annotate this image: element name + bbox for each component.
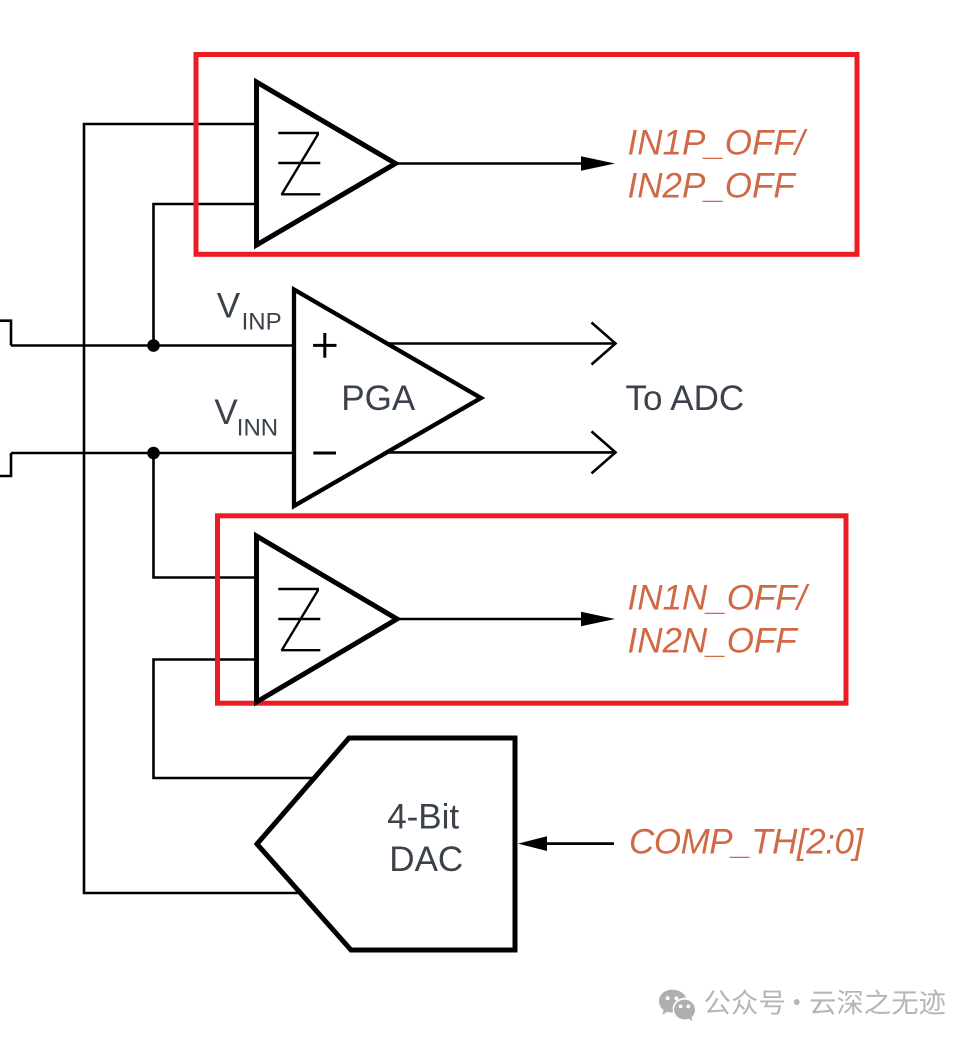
- svg-text:INP: INP: [242, 309, 282, 336]
- arrowhead U1 output: [581, 156, 615, 170]
- wire vertical feedback from DAC bottom to comparator U1 + input: [84, 124, 301, 893]
- watermark text 公众号 · 云深之无迹: [705, 989, 945, 1014]
- wire VINP left entry stub: [0, 321, 11, 346]
- svg-text:4-Bit: 4-Bit: [387, 798, 459, 837]
- comparator U2 hysteresis symbol: [278, 589, 320, 651]
- svg-text:IN1P_OFF/: IN1P_OFF/: [628, 124, 808, 163]
- svg-text:DAC: DAC: [389, 840, 463, 879]
- wire PGA bottom output: [386, 451, 615, 454]
- open arrowhead PGA top output: [592, 323, 616, 365]
- DAC U3 4-bit: [257, 738, 515, 950]
- svg-text:INN: INN: [237, 415, 278, 442]
- svg-text:To ADC: To ADC: [626, 379, 745, 418]
- PGA minus input sign: [313, 452, 336, 455]
- red highlight box 2: [218, 516, 847, 703]
- label IN1N_OFF / IN2N_OFF: [628, 579, 810, 661]
- comparator U1: [257, 82, 396, 245]
- comparator U1 hysteresis symbol: [278, 133, 320, 195]
- wire VINP horizontal to PGA + input: [11, 344, 294, 347]
- svg-text:PGA: PGA: [341, 379, 416, 418]
- label VINN: [214, 393, 278, 442]
- svg-text:IN2N_OFF: IN2N_OFF: [628, 622, 800, 661]
- arrowhead U2 output: [581, 612, 615, 626]
- arrowhead COMP_TH into DAC: [518, 836, 547, 851]
- svg-text:V: V: [214, 393, 238, 432]
- op-amp PGA: [294, 290, 481, 507]
- PGA plus input sign: [313, 333, 336, 358]
- svg-text:COMP_TH[2:0]: COMP_TH[2:0]: [629, 823, 865, 862]
- svg-text:IN2P_OFF: IN2P_OFF: [628, 167, 798, 206]
- wire COMP_TH input: [546, 842, 614, 845]
- label IN1P_OFF / IN2P_OFF: [628, 124, 808, 206]
- svg-text:IN1N_OFF/: IN1N_OFF/: [628, 579, 810, 618]
- svg-text:V: V: [217, 287, 241, 326]
- wire PGA top output: [386, 342, 615, 345]
- wire comparator U2 output: [397, 618, 582, 621]
- comparator U2: [257, 536, 398, 702]
- open arrowhead PGA bottom output: [592, 431, 616, 473]
- wire VINN horizontal to PGA - input: [11, 452, 294, 455]
- wire comparator U2 - input from DAC output: [154, 660, 314, 779]
- wire comparator U1 - input from VINP node: [154, 204, 257, 346]
- watermark wechat icon eyes: [666, 996, 691, 1008]
- wire comparator U1 output: [395, 162, 582, 165]
- label VINP: [217, 287, 282, 336]
- node junction dot on VINP: [147, 339, 160, 352]
- wire comparator U2 + input from VINN node: [154, 453, 258, 578]
- watermark wechat icon: [659, 990, 695, 1022]
- wire VINN left exit stub: [0, 453, 11, 476]
- red highlight box 1: [196, 55, 857, 255]
- node junction dot on VINN: [147, 447, 160, 460]
